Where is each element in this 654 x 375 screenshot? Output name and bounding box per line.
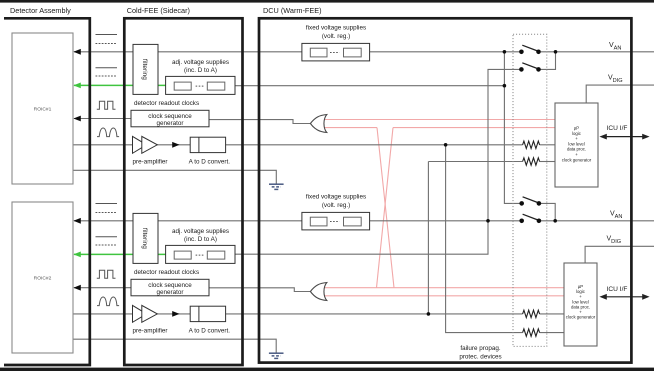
fixed supplies cell2 top (344, 48, 362, 57)
Cold-FEE frame (124, 18, 242, 365)
or-gate U2 failure propagation bottom (310, 283, 326, 301)
resistor R3 (ADC2 data line) (523, 310, 540, 317)
node G junction (ADC2 data split) (427, 312, 431, 316)
ground symbol bottom (269, 353, 284, 358)
switch S2 contact right (536, 67, 541, 72)
svg-text:fixed voltage supplies: fixed voltage supplies (306, 194, 366, 201)
resistor R1 (ADC1 data line) (523, 141, 540, 148)
switch S1 contact right (536, 50, 541, 55)
adj supplies cell1 bottom (174, 251, 191, 259)
adj supplies cell2 top (207, 82, 225, 90)
adj supplies dashes bottom (196, 254, 205, 256)
pink net: OR2 input B to uP2 (324, 295, 565, 297)
wire vertical ADC1 cross-strap down (446, 145, 523, 333)
svg-text:(inc. D to A): (inc. D to A) (184, 236, 217, 243)
svg-text:data proc.: data proc. (567, 147, 586, 152)
wire switch2 left to vertical cross-feed B (235, 69, 521, 254)
dc level symbol dashed top2 (96, 75, 118, 77)
svg-text:pre-amplifier: pre-amplifier (133, 159, 168, 166)
pink net: OR1 input A to uP1 (324, 119, 556, 121)
svg-text:Cold-FEE (Sidecar): Cold-FEE (Sidecar) (127, 6, 190, 15)
wire ROIC1 return to ground (73, 170, 276, 184)
pink diagonal cross-strap 2 (377, 128, 394, 288)
wire VAN rail bottom (ROIC2 bias supply) (74, 220, 520, 222)
wire ADC2 cross-strap data into uP1 (428, 161, 522, 163)
pre-amplifier Q2 triangle2 (142, 305, 158, 322)
wire green adjustable bias to ROIC2 (74, 253, 166, 255)
svg-text:Detector Assembly: Detector Assembly (10, 6, 71, 15)
arrowhead green into ROIC1 (73, 83, 80, 89)
clock sequence generator box bottom (131, 279, 209, 296)
dc level symbol solid top2 (96, 67, 118, 69)
switch S2 contact left (519, 67, 524, 72)
svg-text:DCU (Warm-FEE): DCU (Warm-FEE) (263, 6, 322, 15)
svg-text:clock sequence: clock sequence (148, 282, 192, 289)
filtering box top (133, 44, 158, 94)
svg-text:clock sequence: clock sequence (148, 113, 192, 120)
wire vertical cross-feed node A (504, 52, 521, 204)
wire switch2 right to VAN node (539, 52, 556, 70)
node B junction (VAN top / switch2 riser) (554, 50, 558, 54)
node A junction (VAN top / vertical) (503, 50, 507, 54)
svg-text:filtering: filtering (141, 59, 148, 80)
ground symbol top (269, 184, 284, 189)
A-to-D converter box bottom (190, 306, 225, 321)
wire VAN rail bottom right segment (541, 220, 654, 222)
svg-text:µP: µP (574, 126, 579, 131)
ROIC#2 box (12, 202, 73, 353)
pre-amplifier Q2 triangle1 (133, 305, 147, 322)
wire ADC1 data rail into uP1 (540, 144, 556, 146)
wire switch3 right to VAN2 node (539, 203, 555, 220)
wire vertical ADC2 cross-strap up (427, 162, 429, 314)
wire VAN rail top right segment (541, 51, 654, 53)
fixed voltage supplies box top (302, 43, 370, 61)
svg-text:ICU I/F: ICU I/F (607, 125, 628, 132)
analog waveform symbol top (97, 128, 119, 137)
node C junction (adj supply tap) (503, 84, 507, 88)
svg-text:ICU I/F: ICU I/F (607, 286, 628, 293)
fixed supplies dashes bottom (330, 221, 339, 223)
adj supplies cell1 top (174, 82, 191, 90)
fixed supplies cell1 top (310, 48, 327, 57)
svg-text:generator: generator (157, 289, 184, 296)
dc level symbol dashed top1 (96, 43, 118, 45)
ICU I/F arrow top (599, 134, 649, 140)
svg-text:protec. devices: protec. devices (459, 353, 501, 360)
ADC2 inner divider (198, 306, 200, 321)
microprocessor U4 labels (566, 284, 596, 320)
filtering box bottom (133, 213, 158, 263)
pre-amplifier Q1 triangle2 (142, 136, 158, 153)
dc level symbol dashed bot2 (96, 244, 118, 246)
failure propagation protection devices dashed box (513, 34, 547, 346)
resistor R4 (cross data line 2) (523, 329, 540, 336)
Detector Assembly bracket (4, 18, 90, 365)
svg-text:adj. voltage supplies: adj. voltage supplies (172, 59, 229, 66)
ADC1 inner divider (198, 137, 200, 152)
wire ROIC2 return to ground (73, 339, 276, 353)
switch S1 blade (522, 45, 537, 51)
resistor R2 (cross data line) (523, 158, 540, 165)
wire clock seq gen to OR1 output (209, 120, 310, 124)
node E junction (VAN bottom / cross feed) (486, 219, 490, 223)
wire cross-strap into uP1 segment (540, 161, 556, 163)
svg-text:detector readout clocks: detector readout clocks (134, 100, 199, 107)
switch S3 contact right (537, 201, 542, 206)
fixed supplies cell2 bottom (344, 217, 362, 226)
adj voltage supplies box top (166, 76, 235, 94)
svg-text:A to D convert.: A to D convert. (189, 159, 231, 166)
ROIC#1 box (12, 33, 73, 184)
switch S3 contact left (519, 201, 524, 206)
svg-text:fixed voltage supplies: fixed voltage supplies (306, 25, 366, 32)
wire clock into ROIC2 (74, 287, 131, 289)
switch S1 contact left (519, 50, 524, 55)
wire ROIC1 analog out / ADC1 data rail (73, 144, 523, 146)
fixed supplies cell1 bottom (310, 217, 327, 226)
wire clock into ROIC1 (74, 118, 131, 120)
arrowhead clock into ROIC1 (73, 116, 80, 122)
svg-text:generator: generator (157, 120, 184, 127)
dc level symbol solid bot1 (96, 203, 118, 205)
arrowhead preamp2 to ADC2 (172, 311, 179, 317)
dc level symbol solid top1 (96, 34, 118, 36)
pink net: uP1 second output stub (393, 127, 555, 129)
wire clock seq gen 2 to OR2 output (209, 288, 310, 292)
analog waveform symbol bottom (97, 297, 119, 306)
adj voltage supplies box bottom (166, 245, 235, 263)
svg-text:ROIC#1: ROIC#1 (34, 107, 52, 113)
svg-text:low level: low level (568, 141, 585, 146)
pink net: OR2 input A to uP2 (324, 287, 565, 289)
svg-text:adj. voltage supplies: adj. voltage supplies (172, 228, 229, 235)
wire cross-strap B2 into uP2 (540, 332, 565, 334)
page rule bottom (0, 368, 654, 371)
wire adj supplies output to node (235, 85, 504, 87)
svg-text:A to D convert.: A to D convert. (189, 328, 231, 335)
microprocessor U3 box top (555, 103, 598, 187)
wire green adjustable bias to ROIC1 (74, 84, 166, 86)
fixed voltage supplies box bottom (302, 212, 370, 230)
svg-text:(volt. reg.): (volt. reg.) (322, 202, 350, 209)
clock waveform symbol bottom (97, 270, 116, 278)
page rule top (0, 0, 654, 3)
svg-text:pre-amplifier: pre-amplifier (133, 328, 168, 335)
wire VAN rail top (ROIC1 bias supply) (74, 51, 519, 53)
arrowhead green into ROIC2 (73, 252, 80, 258)
arrowhead into ROIC2 supply (73, 218, 80, 224)
microprocessor U3 labels (562, 126, 592, 163)
svg-text:logic: logic (572, 131, 582, 136)
fixed supplies dashes top (330, 52, 339, 54)
svg-text:detector readout clocks: detector readout clocks (134, 269, 199, 276)
arrowhead preamp1 to ADC1 (172, 142, 179, 148)
dc level symbol dashed bot1 (96, 212, 118, 214)
pink net: OR1 input B stub (324, 127, 378, 129)
svg-text:failure propag.: failure propag. (460, 345, 501, 352)
switch S3 blade (523, 197, 538, 203)
dc level symbol solid bot2 (96, 236, 118, 238)
DCU frame (259, 18, 631, 362)
or-gate U1 failure propagation top (310, 115, 326, 133)
microprocessor U4 box bottom (564, 263, 597, 346)
wire ROIC2 analog out / ADC2 data rail (73, 313, 523, 315)
svg-text:filtering: filtering (141, 228, 148, 249)
clock sequence generator box top (131, 110, 209, 127)
clock waveform symbol top (97, 101, 116, 109)
arrowhead into ROIC1 supply (73, 49, 80, 55)
svg-text:(volt. reg.): (volt. reg.) (322, 33, 350, 40)
svg-text:ROIC#2: ROIC#2 (34, 276, 52, 282)
node F junction (VAN bottom / switch3 riser) (553, 219, 557, 223)
arrowhead clock into ROIC2 (73, 285, 80, 291)
wire ADC2 data rail into uP2 (540, 313, 565, 315)
adj supplies dashes top (196, 85, 205, 87)
svg-text:(inc. D to A): (inc. D to A) (184, 67, 217, 74)
wire VDIG bottom feed (585, 246, 654, 263)
switch S4 blade (523, 214, 538, 220)
A-to-D converter box top (190, 137, 225, 152)
ICU I/F arrow bottom (599, 294, 649, 300)
svg-text:clock generator: clock generator (562, 157, 592, 162)
adj supplies cell2 bottom (207, 251, 225, 259)
switch S4 contact left (519, 219, 524, 224)
svg-text:clock generator: clock generator (566, 315, 596, 320)
wire VDIG top feed (586, 85, 654, 103)
pre-amplifier Q1 triangle1 (133, 136, 147, 153)
switch S2 blade (522, 63, 537, 69)
switch S4 contact right (537, 219, 542, 224)
node D junction (ADC1 data split) (444, 143, 448, 147)
pink diagonal cross-strap 1 (377, 128, 394, 288)
